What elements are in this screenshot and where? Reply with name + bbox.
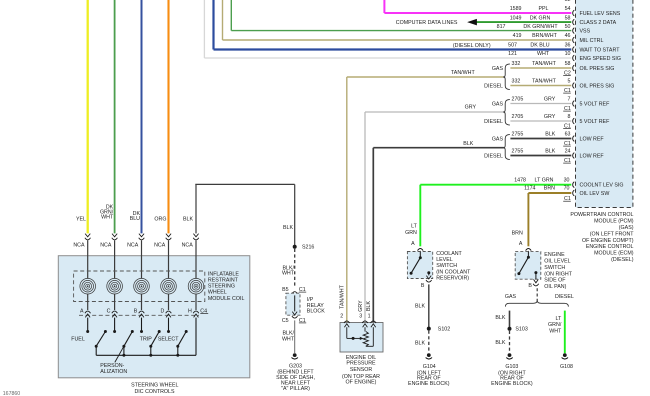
svg-text:121: 121	[508, 51, 517, 57]
svg-text:332: 332	[512, 61, 521, 67]
wire BLK/WHT dashed S216 to relay	[294, 249, 296, 287]
svg-text:OIL PAN): OIL PAN)	[544, 284, 566, 290]
svg-text:2755: 2755	[512, 149, 524, 155]
svg-text:PRESSURE: PRESSURE	[346, 361, 376, 367]
svg-text:(GAS): (GAS)	[619, 225, 634, 231]
sensor internal resistor	[363, 332, 368, 347]
svg-text:TAN/WHT: TAN/WHT	[532, 79, 556, 85]
PCM pin cup at ENG SPEED SIG (58)	[573, 55, 575, 61]
I/P relay block box	[286, 293, 300, 315]
svg-text:OIL LEVEL: OIL LEVEL	[544, 258, 570, 264]
svg-text:LOW REF: LOW REF	[580, 153, 605, 159]
svg-text:S102: S102	[438, 327, 450, 333]
inline connector break NCA #1	[85, 234, 90, 237]
svg-text:COMPUTER DATA LINES: COMPUTER DATA LINES	[396, 20, 458, 26]
ground G103	[508, 353, 512, 357]
svg-text:ENGINE BLOCK): ENGINE BLOCK)	[491, 381, 533, 387]
ground G203	[293, 353, 297, 357]
svg-text:GAS: GAS	[492, 101, 504, 107]
svg-text:BLK: BLK	[183, 216, 193, 222]
svg-text:10: 10	[565, 51, 571, 57]
PCM pin cup at VSS (30.6)	[573, 28, 575, 34]
svg-text:1589: 1589	[510, 6, 522, 12]
inline connector break NCA #4	[166, 234, 171, 237]
svg-text:FUEL LEV SENS: FUEL LEV SENS	[580, 11, 621, 17]
wire DK GRN 1049 with off-page arrow	[474, 21, 571, 23]
wire YEL vertical from top	[87, 0, 89, 233]
sensor internal low ref wire	[372, 327, 374, 346]
connector C4 dashed line	[79, 314, 199, 316]
sensor internal signal wire	[346, 327, 348, 338]
coil spiral #5	[188, 278, 204, 294]
svg-text:5: 5	[568, 79, 571, 85]
wire through coil to pin row #1	[87, 294, 89, 310]
svg-text:ENG SPEED SIG: ENG SPEED SIG	[580, 56, 622, 62]
svg-text:817: 817	[497, 24, 506, 30]
svg-text:WHT: WHT	[537, 51, 550, 57]
svg-text:BLK: BLK	[283, 225, 293, 231]
wire below pin A	[87, 318, 89, 332]
wire ORG vertical from top	[167, 0, 169, 233]
svg-text:5 VOLT REF: 5 VOLT REF	[580, 119, 611, 125]
PCM pin cup at LOW REF (138.5)	[573, 136, 575, 142]
svg-text:30: 30	[564, 178, 570, 184]
svg-text:A: A	[519, 241, 523, 247]
sensor internal 5v wire	[364, 327, 366, 331]
common bus wire	[96, 354, 196, 356]
wire BLK diesel branch	[510, 155, 571, 157]
svg-text:SENSOR: SENSOR	[350, 367, 373, 373]
wire BLK dashed S102 to G104	[428, 331, 430, 353]
svg-text:RESERVOIR): RESERVOIR)	[436, 276, 469, 282]
wire LT GRN/WHT diesel branch	[564, 311, 566, 354]
PCM/ECM module box (powertrain control module, right side, top cut off)	[576, 0, 633, 208]
svg-text:SIDE OF: SIDE OF	[544, 278, 566, 284]
ground G108	[563, 353, 567, 357]
TRIP switch wire terminal dot	[140, 330, 143, 333]
relay entry connector	[292, 292, 298, 294]
splice S216	[293, 245, 297, 249]
wire dashed oil switch B to split	[536, 288, 538, 300]
svg-text:ORG: ORG	[154, 216, 166, 222]
wire DK BLU 507	[212, 0, 214, 50]
svg-text:BLK: BLK	[495, 340, 505, 346]
oil switch exit connector	[534, 279, 539, 282]
FUEL switch wire terminal dot	[86, 330, 89, 333]
svg-text:STEERING: STEERING	[208, 284, 235, 290]
svg-text:MIL CTRL: MIL CTRL	[580, 38, 604, 44]
svg-text:1478: 1478	[514, 178, 526, 184]
svg-text:BLK: BLK	[463, 141, 473, 147]
svg-text:167860: 167860	[3, 391, 20, 396]
svg-text:A: A	[411, 241, 415, 247]
svg-text:1: 1	[368, 314, 371, 320]
svg-text:"A" PILLAR): "A" PILLAR)	[281, 386, 310, 392]
svg-text:G103: G103	[505, 364, 518, 370]
svg-text:58: 58	[565, 61, 571, 67]
wire black segment below NCA #2	[114, 240, 116, 278]
inline connector break NCA #3	[139, 234, 144, 237]
PCM pin cup at COOLNT LEV SIG (184.7)	[573, 182, 575, 188]
PCM pin cup at MIL CTRL (40)	[573, 37, 575, 43]
svg-text:MODULE (PCM): MODULE (PCM)	[594, 219, 634, 225]
svg-text:ALIZATION: ALIZATION	[100, 369, 127, 375]
svg-text:LT: LT	[556, 316, 563, 322]
wire TAN/WHT diesel branch	[510, 85, 571, 87]
wire through coil to pin row #4	[168, 294, 170, 310]
svg-text:A: A	[80, 309, 84, 315]
svg-text:C5: C5	[282, 318, 289, 324]
brace gas/diesel split for BLK	[503, 135, 510, 160]
svg-text:332: 332	[512, 79, 521, 85]
coil spiral #4	[161, 278, 177, 294]
wire through coil to pin row #2	[114, 294, 116, 310]
bus junction dot	[149, 354, 152, 357]
inline connector break NCA #5	[193, 234, 198, 237]
svg-text:TAN/WHT: TAN/WHT	[451, 70, 475, 76]
svg-text:DK GRN/WHT: DK GRN/WHT	[523, 24, 558, 30]
svg-text:GRN: GRN	[405, 230, 417, 236]
PCM pin cup at OIL PRES SIG (85.5)	[573, 83, 575, 89]
svg-text:LOW REF: LOW REF	[580, 136, 605, 142]
svg-text:NCA: NCA	[154, 243, 166, 249]
svg-text:BLK: BLK	[545, 149, 555, 155]
svg-text:46: 46	[565, 33, 571, 39]
svg-text:D: D	[160, 309, 164, 315]
svg-text:DIESEL: DIESEL	[555, 294, 574, 300]
wire black segment below NCA #4	[168, 240, 170, 278]
svg-text:8: 8	[568, 114, 571, 120]
svg-text:TRIP: TRIP	[140, 336, 153, 342]
wire GRY gas branch	[510, 103, 571, 105]
svg-text:WHT: WHT	[282, 336, 295, 342]
splice S102	[427, 327, 431, 331]
svg-text:419: 419	[513, 33, 522, 39]
svg-text:CLASS 2 DATA: CLASS 2 DATA	[580, 20, 617, 26]
svg-text:50: 50	[565, 24, 571, 30]
svg-text:GAS: GAS	[505, 294, 517, 300]
wire WHT 121 (vertical+horizontal)	[203, 0, 205, 58]
wire black segment below NCA #3	[141, 240, 143, 278]
svg-text:WHT: WHT	[549, 329, 562, 335]
pin A connector symbol	[85, 311, 91, 313]
svg-text:(ON LEFT FRONT: (ON LEFT FRONT	[590, 232, 635, 238]
svg-text:SWITCH: SWITCH	[436, 263, 457, 269]
brace gas/diesel split for GRY	[503, 100, 510, 126]
svg-text:1049: 1049	[510, 15, 522, 21]
PCM pin cup at 5 VOLT REF (121)	[573, 118, 575, 124]
svg-text:BLK: BLK	[495, 315, 505, 321]
svg-text:BRN/WHT: BRN/WHT	[532, 33, 557, 39]
svg-text:PPL: PPL	[538, 6, 548, 12]
svg-text:OF ENGINE): OF ENGINE)	[346, 380, 377, 386]
wire BLK main (low ref)	[372, 148, 374, 322]
sensor entry connector pin 2	[344, 321, 350, 323]
svg-text:WAIT TO START: WAIT TO START	[580, 47, 621, 53]
personalization leader line	[115, 346, 124, 362]
svg-text:S103: S103	[515, 327, 527, 333]
svg-text:58: 58	[565, 15, 571, 21]
svg-text:SELECT: SELECT	[158, 336, 179, 342]
bus junction dot	[122, 354, 125, 357]
svg-text:24: 24	[565, 149, 571, 155]
svg-text:GAS: GAS	[492, 136, 504, 142]
PERSONALIZATION switch movable contact	[131, 330, 134, 333]
svg-text:MODULE COIL: MODULE COIL	[208, 296, 245, 302]
svg-text:BLOCK: BLOCK	[307, 308, 325, 314]
wire BLK/WHT relay to G203	[294, 320, 296, 353]
svg-text:2755: 2755	[512, 132, 524, 138]
svg-text:GRY: GRY	[465, 104, 477, 110]
wire LT GRN 1478 coolant level sig	[420, 184, 571, 186]
svg-text:GAS: GAS	[492, 66, 504, 72]
PERSONALIZATION switch wire terminal dot	[113, 330, 116, 333]
svg-text:54: 54	[565, 6, 571, 12]
svg-text:BLK: BLK	[366, 301, 372, 311]
PCM pin cup at OIL LEV SW (193)	[573, 190, 575, 196]
svg-text:DK GRN: DK GRN	[530, 15, 551, 21]
wire through coil to pin row #5	[195, 294, 197, 310]
svg-text:(ON RIGHT: (ON RIGHT	[544, 271, 572, 277]
svg-text:ENGINE: ENGINE	[544, 252, 565, 258]
pin B connector symbol	[139, 311, 145, 313]
oil switch entry connector	[526, 249, 532, 251]
svg-text:5 VOLT REF: 5 VOLT REF	[580, 101, 611, 107]
svg-text:NCA: NCA	[127, 243, 139, 249]
pin D connector symbol	[166, 311, 172, 313]
SELECT switch wire terminal dot	[167, 330, 170, 333]
svg-text:(DIESEL ONLY): (DIESEL ONLY)	[453, 43, 491, 49]
PCM pin cup at FUEL LEV SENS (13)	[573, 10, 575, 16]
coil spiral #1	[80, 278, 96, 294]
PCM pin cup at LOW REF (155.5)	[573, 153, 575, 159]
wire BLK gas branch	[510, 138, 571, 140]
svg-text:LEVEL: LEVEL	[436, 257, 453, 263]
wire BLK horizontal run to S216	[195, 183, 294, 185]
svg-text:GRY: GRY	[544, 114, 556, 120]
svg-text:BLK: BLK	[545, 132, 555, 138]
engine oil pressure sensor box	[340, 323, 383, 353]
wire BLK vertical (x=196) from horizontal run	[195, 184, 197, 233]
svg-text:OIL PRES SIG: OIL PRES SIG	[580, 83, 615, 89]
svg-text:2705: 2705	[512, 114, 524, 120]
wire BLK coolant to S102	[428, 284, 430, 328]
coil spiral #2	[107, 278, 123, 294]
svg-text:(IN COOLANT: (IN COOLANT	[436, 269, 471, 275]
svg-text:H: H	[188, 309, 192, 315]
svg-text:OF ENGINE COMPT): OF ENGINE COMPT)	[582, 238, 634, 244]
svg-text:ENGINE CONTROL: ENGINE CONTROL	[586, 244, 634, 250]
relay internal wire	[294, 295, 296, 311]
SELECT switch movable contact	[185, 330, 188, 333]
pin C connector symbol	[112, 311, 118, 313]
svg-text:507: 507	[508, 43, 517, 49]
svg-text:COOLANT: COOLANT	[436, 251, 462, 257]
wire BRN 1174 oil level switch	[528, 192, 571, 194]
svg-text:RESTRAINT: RESTRAINT	[208, 278, 239, 284]
svg-text:DIC CONTROLS: DIC CONTROLS	[134, 389, 174, 395]
svg-text:B: B	[134, 309, 138, 315]
wire BLK gas branch to S103	[509, 311, 511, 329]
svg-text:VSS: VSS	[580, 29, 591, 35]
coil spiral #3	[134, 278, 150, 294]
wire BRN/WHT 419	[222, 0, 224, 40]
PCM pin cup at WAIT TO START (49.5)	[573, 47, 575, 53]
svg-text:INFLATABLE: INFLATABLE	[208, 271, 239, 277]
wire below pin D	[168, 318, 170, 332]
pin H connector symbol	[193, 311, 199, 313]
wire GRY main (5 volt ref)	[364, 112, 366, 322]
svg-text:PERSON-: PERSON-	[100, 363, 124, 369]
wire below pin H	[195, 318, 197, 356]
svg-text:WHT: WHT	[282, 271, 295, 277]
svg-text:DIESEL: DIESEL	[484, 119, 503, 125]
relay exit connector	[292, 312, 297, 315]
svg-text:DIESEL: DIESEL	[484, 153, 503, 159]
svg-text:B: B	[421, 283, 425, 289]
coolant switch exit connector	[426, 276, 431, 279]
svg-text:G104: G104	[423, 364, 436, 370]
wire DK GRN/WHT 817	[230, 0, 232, 31]
wire BLK vertical down to S216	[294, 184, 296, 246]
wire below pin C	[114, 318, 116, 332]
svg-text:COOLNT LEV SIG: COOLNT LEV SIG	[580, 183, 624, 189]
coolant switch contacts	[419, 256, 422, 259]
svg-text:GRY: GRY	[358, 300, 364, 312]
svg-text:MODULE (ECM): MODULE (ECM)	[594, 251, 634, 257]
svg-text:G108: G108	[560, 364, 573, 370]
svg-text:LT: LT	[411, 224, 418, 230]
svg-text:S216: S216	[302, 245, 314, 251]
svg-text:STEERING WHEEL: STEERING WHEEL	[131, 383, 178, 389]
svg-text:FUEL: FUEL	[71, 336, 85, 342]
wire TAN/WHT gas branch	[510, 67, 571, 69]
sensor entry connector pin 1	[371, 321, 377, 323]
oil switch contacts	[527, 256, 530, 259]
svg-text:ENGINE BLOCK): ENGINE BLOCK)	[408, 381, 450, 387]
svg-text:3: 3	[359, 314, 362, 320]
wire GRY diesel branch	[510, 120, 571, 122]
svg-text:B5: B5	[282, 287, 289, 293]
wire black segment below NCA #5	[195, 240, 197, 278]
svg-text:7: 7	[568, 97, 571, 103]
PCM pin cup at OIL PRES SIG (68)	[573, 65, 575, 71]
svg-text:OIL LEV SW: OIL LEV SW	[580, 191, 610, 197]
inflatable restraint coil dashed box	[74, 271, 205, 302]
inline connector break NCA #2	[112, 234, 117, 237]
wire DK GRN/WHT vertical from top	[114, 0, 116, 233]
TRIP switch movable contact	[158, 330, 161, 333]
wire TAN/WHT main (sensor signal)	[346, 77, 348, 322]
svg-text:63: 63	[565, 132, 571, 138]
svg-text:SWITCH: SWITCH	[544, 265, 565, 271]
svg-text:52: 52	[565, 0, 571, 3]
svg-text:BRN: BRN	[512, 230, 523, 236]
wire through coil to pin row #3	[141, 294, 143, 310]
wire black segment below NCA #1	[87, 240, 89, 278]
svg-text:WHT: WHT	[101, 215, 114, 221]
svg-text:70: 70	[564, 186, 570, 192]
svg-text:LT GRN: LT GRN	[535, 178, 554, 184]
brace gas/diesel split for TAN/WHT	[503, 64, 510, 90]
PCM pin cup at 5 VOLT REF (103.5)	[573, 101, 575, 107]
svg-text:WHEEL: WHEEL	[208, 290, 227, 296]
ground G104	[427, 353, 431, 357]
svg-text:(DIESEL): (DIESEL)	[611, 257, 634, 263]
svg-text:1174: 1174	[524, 186, 535, 192]
PCM pin cup at CLASS 2 DATA (22.1)	[573, 19, 575, 25]
wire DK BLU vertical from top	[141, 0, 143, 233]
svg-text:BRN: BRN	[544, 186, 555, 192]
svg-text:TAN/WHT: TAN/WHT	[340, 284, 346, 308]
svg-text:DK BLU: DK BLU	[530, 43, 549, 49]
splice S103	[508, 327, 512, 331]
steering wheel DIC controls box	[58, 256, 250, 378]
svg-text:NCA: NCA	[182, 243, 194, 249]
svg-text:C: C	[107, 309, 111, 315]
svg-text:TAN/WHT: TAN/WHT	[532, 61, 556, 67]
wire below pin B	[141, 318, 143, 332]
sensor entry connector pin 3	[362, 321, 368, 323]
svg-text:POWERTRAIN CONTROL: POWERTRAIN CONTROL	[570, 212, 633, 218]
wire BLK dashed S103 to G103	[509, 331, 511, 353]
svg-text:36: 36	[565, 43, 571, 49]
svg-text:GRN/: GRN/	[548, 322, 562, 328]
gas/diesel split brace	[505, 300, 568, 306]
svg-text:2705: 2705	[512, 97, 524, 103]
svg-text:2: 2	[340, 314, 343, 320]
svg-text:BLU: BLU	[130, 216, 140, 222]
svg-text:DIESEL: DIESEL	[484, 83, 503, 89]
coolant level switch box	[407, 252, 432, 279]
svg-text:BLK: BLK	[415, 341, 425, 347]
wire PPL 1589	[383, 0, 385, 13]
svg-text:BLK: BLK	[415, 303, 425, 309]
svg-text:NCA: NCA	[100, 243, 112, 249]
FUEL switch movable contact	[104, 330, 107, 333]
svg-text:GRY: GRY	[544, 97, 556, 103]
svg-text:YEL: YEL	[76, 216, 86, 222]
coolant switch entry connector	[418, 249, 424, 251]
svg-text:NCA: NCA	[73, 243, 85, 249]
bus junction dot	[176, 354, 179, 357]
svg-text:B: B	[528, 283, 532, 289]
engine oil level switch box	[515, 252, 541, 280]
svg-text:OIL PRES SIG: OIL PRES SIG	[580, 66, 615, 72]
